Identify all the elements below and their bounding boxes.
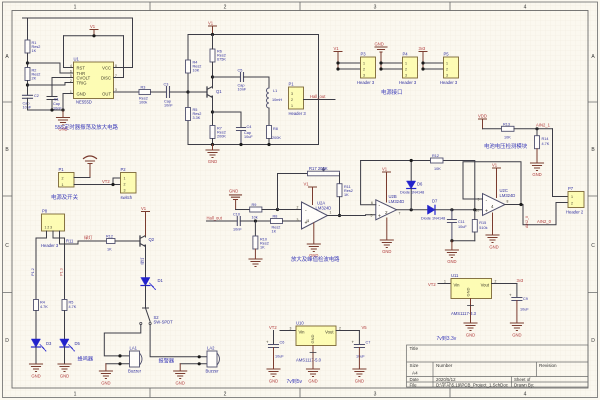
junction divider node (535, 127, 538, 130)
svg-text:2: 2 (224, 392, 227, 398)
svg-text:7v到3.3v: 7v到3.3v (437, 335, 457, 342)
op-amp U2C (476, 188, 516, 216)
svg-text:GND: GND (208, 159, 217, 164)
svg-text:D6: D6 (417, 182, 423, 187)
svg-text:D:\学习\5.19\PCB_Project_1.SchDo: D:\学习\5.19\PCB_Project_1.SchDoc (436, 382, 509, 389)
diode D7 (421, 199, 445, 221)
wire D1 to switch (145, 286, 147, 309)
ground GND under C6 (267, 348, 280, 384)
svg-text:D: D (5, 338, 9, 344)
svg-text:Vout: Vout (325, 330, 334, 335)
svg-text:3: 3 (291, 92, 293, 96)
svg-text:2: 2 (70, 79, 72, 83)
svg-text:V1: V1 (382, 167, 388, 172)
resistor R12 (431, 154, 444, 171)
svg-text:2: 2 (291, 98, 293, 102)
op chip U1 NE555D (70, 57, 117, 105)
resistor R8a (267, 126, 282, 141)
wire feedback top rail (361, 161, 475, 211)
wire node to THR (28, 63, 74, 73)
svg-text:1: 1 (405, 62, 407, 66)
ground GND under D3 (30, 364, 43, 379)
wire V1 to P3 pins (338, 63, 361, 69)
LED D3 (32, 339, 53, 351)
ground GND under LA1 (99, 364, 112, 386)
ground GND under C9 (510, 301, 523, 338)
svg-text:OUT: OUT (102, 92, 111, 97)
ground GND under U2C (486, 213, 499, 250)
junction LA1 pins (118, 354, 121, 357)
svg-text:555定时器振荡及放大电路: 555定时器振荡及放大电路 (55, 123, 119, 131)
wire top rail to R6 (212, 35, 214, 50)
svg-text:7: 7 (399, 212, 401, 216)
wire U2B pin6 riser (361, 161, 376, 205)
header P5 (440, 52, 459, 86)
svg-text:3.3K: 3.3K (193, 116, 201, 120)
op-amp U2A (297, 201, 332, 230)
svg-text:C1: C1 (54, 98, 59, 102)
svg-text:V1: V1 (304, 182, 310, 187)
svg-text:675K: 675K (217, 58, 226, 62)
svg-text:GND: GND (308, 379, 317, 384)
svg-text:V1: V1 (334, 46, 340, 51)
wire gnd to R9 (236, 209, 250, 211)
wire VT2 to U11 Vin (438, 283, 451, 285)
wire R5 to D5 (64, 311, 66, 340)
svg-text:3v3: 3v3 (419, 46, 426, 51)
capacitor C1 (47, 78, 62, 111)
svg-text:VT2: VT2 (102, 179, 110, 184)
resistor R5 (186, 108, 202, 121)
svg-text:C4: C4 (247, 125, 252, 129)
wire AIN2_1 riser to P7 (553, 129, 569, 197)
power port VDD (478, 114, 487, 129)
wire U11 Vout (492, 283, 517, 285)
wire C5 to L1 (244, 77, 270, 88)
svg-text:+: + (378, 214, 381, 220)
junction GND wires (379, 61, 382, 64)
svg-text:2: 2 (297, 206, 299, 210)
wire Q2 emitter down (145, 247, 147, 278)
wire 3v3 to P5 pins (423, 63, 444, 69)
svg-text:Vout: Vout (481, 283, 490, 288)
svg-text:4: 4 (70, 64, 72, 68)
inductor L1 (267, 88, 283, 108)
svg-text:1: 1 (62, 183, 64, 187)
power port V1 above Q2 (141, 206, 150, 236)
svg-text:10k: 10k (252, 216, 258, 220)
svg-text:NE555D: NE555D (76, 100, 92, 105)
junction gnd tie (450, 239, 453, 242)
svg-text:200K: 200K (217, 135, 226, 139)
resistor R14 (535, 129, 550, 149)
svg-text:GND: GND (269, 379, 278, 384)
wire gnd tie C11 R15 (452, 240, 475, 242)
svg-text:V5: V5 (362, 325, 368, 330)
wire U10 Vout (336, 330, 359, 332)
wire D7 to U2C (435, 209, 483, 211)
svg-text:10mH: 10mH (272, 98, 282, 102)
svg-text:P2: P2 (121, 167, 127, 172)
svg-text:报警器: 报警器 (159, 357, 175, 365)
node R2-C2 (26, 83, 29, 86)
svg-text:4: 4 (524, 392, 527, 398)
svg-text:3: 3 (124, 189, 126, 193)
svg-text:AMS1117-5.0: AMS1117-5.0 (296, 358, 322, 363)
wire P8 pin2 column (53, 231, 65, 300)
svg-text:D1: D1 (158, 278, 164, 283)
svg-text:P7: P7 (568, 186, 574, 191)
junction V1 wires (336, 61, 339, 64)
svg-text:6: 6 (70, 69, 72, 73)
svg-text:2: 2 (446, 68, 448, 72)
svg-text:GND: GND (101, 381, 110, 386)
svg-text:GND: GND (310, 335, 315, 344)
svg-text:VDD: VDD (478, 114, 487, 119)
svg-text:10K: 10K (504, 135, 511, 139)
svg-text:R13: R13 (503, 122, 510, 126)
resistor R9 (250, 203, 262, 220)
power port V1 headers (334, 46, 343, 69)
svg-text:P1.2: P1.2 (31, 268, 35, 275)
svg-text:Header 3: Header 3 (289, 111, 307, 116)
svg-text:V1: V1 (208, 21, 214, 26)
svg-text:2020/5/12: 2020/5/12 (436, 377, 456, 382)
svg-text:4.7K: 4.7K (40, 305, 48, 309)
svg-text:GND: GND (447, 259, 456, 264)
wire P1 Hall_out (304, 99, 336, 101)
svg-text:Vin: Vin (299, 330, 306, 335)
svg-text:R14: R14 (542, 137, 549, 141)
wire VT2 to U10 Vin (280, 330, 296, 332)
svg-text:1 2 3: 1 2 3 (45, 226, 53, 230)
svg-text:Number: Number (436, 363, 453, 368)
wire C10 to node (240, 220, 270, 222)
svg-text:GND: GND (466, 333, 475, 338)
wire R2 to C2 (27, 81, 29, 96)
wire VDD to R13 (483, 128, 502, 130)
svg-text:VCC: VCC (102, 65, 111, 70)
svg-text:Header 3: Header 3 (399, 80, 417, 85)
svg-text:AMS1117-3.3: AMS1117-3.3 (451, 311, 477, 316)
capacitor C5 (238, 69, 247, 92)
svg-text:P5: P5 (444, 52, 450, 57)
svg-text:AIN2_0: AIN2_0 (525, 216, 529, 228)
wire R13 to AIN2_1 node (514, 128, 553, 130)
svg-text:10nF: 10nF (233, 228, 242, 232)
resistor R3 (139, 86, 151, 105)
header P1 (2pin power) (59, 167, 75, 187)
svg-text:GND: GND (382, 249, 391, 254)
svg-text:1: 1 (70, 90, 72, 94)
svg-text:A4: A4 (412, 371, 418, 376)
svg-text:GND: GND (532, 172, 541, 177)
svg-text:2: 2 (224, 5, 227, 11)
wire left contact to buzzer LA1 (104, 325, 141, 356)
ground arch above P1 (84, 156, 97, 178)
junction VT2 wire (111, 183, 114, 186)
wire U2C feedback loop (463, 162, 521, 205)
svg-text:3: 3 (446, 74, 448, 78)
svg-text:C10: C10 (233, 213, 240, 217)
wire P8 pin1 column (36, 231, 47, 300)
svg-text:1: 1 (74, 392, 77, 398)
svg-text:P4: P4 (403, 52, 409, 57)
svg-text:10: 10 (476, 209, 480, 213)
op-amp U2B (371, 194, 405, 220)
svg-text:Header 3: Header 3 (440, 80, 458, 85)
svg-text:U1: U1 (74, 57, 80, 62)
junction R8 bottom (267, 143, 270, 146)
wire L1 to R8 (268, 108, 270, 126)
wire U2C out (505, 203, 568, 225)
capacitor C3 (164, 83, 174, 108)
junction C11 tap (450, 208, 453, 211)
svg-text:10uF: 10uF (458, 225, 467, 229)
wire block frame right rail (318, 35, 320, 145)
svg-text:+: + (485, 209, 488, 215)
wire R12 to Q2 base (115, 240, 140, 242)
ground GND under U11 (464, 299, 477, 338)
capacitor C4 (237, 125, 254, 145)
resistor R13 (502, 122, 515, 139)
wire feedback riser (278, 174, 308, 210)
wire CVOLT stub (52, 77, 74, 79)
wire chip GND pin to ground (63, 94, 74, 111)
diode D6 (400, 159, 424, 210)
svg-text:C2: C2 (34, 94, 39, 98)
svg-text:P8: P8 (42, 209, 48, 214)
wire inner rail (DISC/V1) (64, 35, 124, 37)
svg-text:R4: R4 (40, 301, 45, 305)
svg-text:C6: C6 (280, 341, 285, 345)
svg-text:P1: P1 (289, 82, 295, 87)
svg-text:放大及峰值检波电路: 放大及峰值检波电路 (291, 255, 340, 263)
LED D1 (141, 278, 164, 290)
wire U2A out to U2B pin5 (328, 214, 376, 217)
wire U2B out (397, 209, 428, 211)
svg-text:100k: 100k (139, 101, 147, 105)
wire emitter tap to C4 (213, 112, 242, 128)
svg-text:2: 2 (495, 280, 497, 284)
svg-text:+: + (509, 293, 512, 298)
svg-text:R8: R8 (273, 127, 278, 131)
resistor R1 (25, 40, 40, 53)
svg-text:Header 3: Header 3 (357, 80, 375, 85)
svg-text:R12: R12 (432, 154, 439, 158)
svg-text:R15: R15 (479, 221, 486, 225)
resistor R10 (253, 221, 269, 250)
ground GND 555 (57, 110, 70, 132)
svg-text:switch: switch (121, 195, 133, 200)
regulator U10 AMS1117-5.0 (296, 321, 336, 363)
svg-text:1: 1 (444, 280, 446, 284)
svg-text:Drawn By:: Drawn By: (514, 383, 534, 388)
wire inv node to U2A pin2 (278, 209, 302, 211)
svg-text:3v3: 3v3 (517, 278, 524, 283)
capacitor C10 (233, 213, 242, 232)
resistor R8 (amp input) (271, 215, 283, 234)
svg-text:绿灯: 绿灯 (140, 257, 145, 265)
power port 3v3 headers (419, 46, 428, 69)
svg-text:2: 2 (363, 68, 365, 72)
junction inv node (276, 208, 279, 211)
svg-text:2: 2 (62, 177, 64, 181)
ground GND under LA2 (174, 364, 187, 386)
svg-text:GND: GND (489, 245, 498, 250)
svg-text:Vin: Vin (454, 283, 461, 288)
wire R3 to C3 (151, 91, 167, 93)
junction feedback-out (519, 203, 522, 206)
svg-text:RST: RST (77, 65, 86, 70)
svg-text:6: 6 (371, 201, 373, 205)
header P7 (566, 186, 584, 215)
svg-text:1K: 1K (344, 193, 349, 197)
svg-text:5: 5 (70, 74, 72, 78)
svg-text:3: 3 (405, 74, 407, 78)
buzzer LA1 (128, 346, 142, 374)
wire R9 to inv node (262, 209, 278, 211)
header P8 (41, 209, 65, 248)
resistor R5 led (62, 300, 77, 311)
svg-text:Hall_out: Hall_out (207, 216, 223, 221)
svg-text:电源接口: 电源接口 (381, 88, 403, 96)
svg-text:1K: 1K (260, 246, 265, 250)
svg-text:GND: GND (77, 92, 86, 97)
svg-text:R12: R12 (106, 235, 113, 239)
svg-text:VT2: VT2 (428, 282, 436, 287)
header P2 switch (121, 167, 137, 200)
capacitor C11 (447, 210, 467, 241)
svg-text:电池电压检测模块: 电池电压检测模块 (484, 142, 528, 150)
svg-text:GND: GND (355, 379, 364, 384)
wire R4 to D3 (35, 311, 37, 340)
svg-text:Hall_out: Hall_out (310, 94, 326, 99)
svg-text:GND: GND (176, 381, 185, 386)
svg-text:8: 8 (507, 200, 509, 204)
svg-text:AIN2_0: AIN2_0 (537, 219, 552, 224)
svg-text:U11: U11 (451, 273, 459, 278)
wire block frame top rail (188, 34, 319, 36)
wire collector tap to C5 (213, 76, 241, 78)
svg-text:V1: V1 (141, 206, 147, 211)
svg-text:10K: 10K (434, 167, 441, 171)
wire RST riser (64, 36, 74, 68)
svg-text:10uF: 10uF (244, 135, 253, 139)
header P4 (399, 52, 418, 86)
LED D5 (60, 339, 81, 351)
wire block frame left rail (187, 35, 189, 145)
svg-text:2: 2 (571, 202, 573, 206)
wire emitter down (212, 98, 214, 126)
svg-text:AIN2_1: AIN2_1 (536, 122, 551, 127)
svg-text:LA1: LA1 (130, 346, 138, 351)
wire R8 to U2A pin3 (283, 220, 302, 222)
svg-text:1K: 1K (107, 248, 112, 252)
svg-text:1: 1 (74, 5, 77, 11)
wire gnd to LA2 pin2 (180, 363, 207, 365)
svg-text:4: 4 (524, 5, 527, 11)
svg-text:7v到5v: 7v到5v (287, 378, 303, 385)
svg-text:R5: R5 (69, 301, 74, 305)
svg-text:U10: U10 (296, 321, 304, 326)
capacitor C2 (23, 94, 39, 110)
power port V1 (90, 24, 98, 36)
capacitor C6 (266, 331, 284, 359)
junction C4 bottom (239, 143, 242, 146)
junction V1 top rail (211, 33, 214, 36)
svg-text:Header 2: Header 2 (566, 210, 584, 215)
svg-text:2: 2 (405, 68, 407, 72)
wire right contact to buzzer LA2 (150, 325, 207, 357)
junction emitter tap (211, 110, 214, 113)
svg-text:3: 3 (363, 74, 365, 78)
svg-text:10nF: 10nF (238, 88, 247, 92)
svg-text:+: + (352, 340, 355, 345)
svg-text:3: 3 (297, 218, 299, 222)
power port V1 above U2C (492, 163, 501, 198)
power port V1 above U2B (382, 167, 391, 203)
junction LA2 pins (198, 355, 201, 358)
svg-text:+: + (266, 340, 269, 345)
svg-text:GND: GND (229, 189, 238, 194)
svg-text:10K: 10K (193, 69, 200, 73)
svg-text:D5: D5 (75, 341, 81, 346)
wire R8 to bottom rail (268, 139, 270, 145)
transistor Q2 (140, 236, 155, 247)
junction C10/R10 node (254, 219, 257, 222)
resistor R2 (25, 68, 40, 81)
ground GND under U2A (307, 223, 320, 258)
svg-text:3: 3 (374, 392, 377, 398)
svg-text:VT2: VT2 (269, 325, 277, 330)
junction base node (186, 90, 189, 93)
svg-text:L1: L1 (273, 89, 277, 93)
junction 3v3 wires (421, 61, 424, 64)
wire D3 to gnd (35, 347, 37, 364)
svg-text:D7: D7 (432, 199, 438, 204)
svg-text:3: 3 (290, 327, 292, 331)
svg-text:Cap: Cap (53, 102, 60, 106)
title block (407, 345, 589, 387)
svg-text:Diode 1N4148: Diode 1N4148 (400, 191, 424, 195)
svg-text:2: 2 (339, 327, 341, 331)
junction V1-rail (92, 34, 95, 37)
svg-text:C9: C9 (523, 297, 528, 301)
svg-text:SW-SPDT: SW-SPDT (154, 320, 174, 325)
wire branch to P2 pin1 (113, 178, 121, 185)
svg-text:1: 1 (363, 62, 365, 66)
svg-text:5: 5 (371, 214, 373, 218)
svg-text:R11: R11 (66, 239, 74, 244)
ground GND under C11 (445, 241, 458, 264)
svg-text:P1: P1 (59, 167, 65, 172)
svg-text:4: 4 (491, 204, 494, 209)
power port V1 oscillator (208, 21, 217, 35)
svg-text:2: 2 (124, 183, 126, 187)
ground GND under C7 (353, 348, 366, 384)
svg-text:1: 1 (446, 62, 448, 66)
resistor R15 (472, 210, 487, 241)
svg-text:4.7K: 4.7K (69, 305, 77, 309)
svg-text:R9: R9 (252, 203, 257, 207)
svg-text:C11: C11 (458, 220, 465, 224)
junction R7 bottom (211, 143, 214, 146)
svg-text:1: 1 (330, 211, 332, 215)
svg-text:C3: C3 (164, 83, 169, 87)
svg-text:Revision: Revision (539, 363, 557, 368)
ground GND under U10 (307, 346, 320, 384)
